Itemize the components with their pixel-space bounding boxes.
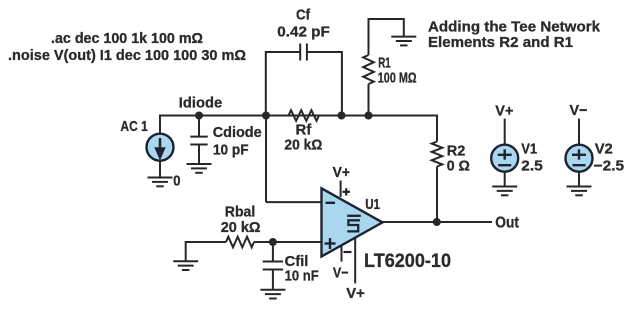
svg-text:.noise V(out) I1 dec 100 100 3: .noise V(out) I1 dec 100 100 30 mΩ [8, 47, 246, 64]
svg-text:Cdiode: Cdiode [213, 124, 262, 141]
svg-text:.ac dec 100 1k 100 mΩ: .ac dec 100 1k 100 mΩ [51, 30, 203, 47]
svg-text:U1: U1 [365, 196, 380, 213]
svg-text:10 pF: 10 pF [213, 142, 249, 159]
svg-text:AC 1: AC 1 [120, 118, 147, 135]
svg-text:0.42 pF: 0.42 pF [277, 23, 330, 40]
svg-text:V1: V1 [521, 140, 537, 157]
svg-text:Cf: Cf [296, 7, 311, 24]
svg-text:V+: V+ [333, 164, 351, 181]
svg-text:Idiode: Idiode [179, 95, 222, 112]
svg-text:10 nF: 10 nF [285, 268, 319, 285]
svg-text:V+: V+ [495, 102, 513, 119]
svg-text:20 kΩ: 20 kΩ [221, 219, 261, 236]
svg-text:V−: V− [333, 264, 349, 281]
svg-text:2.5: 2.5 [521, 158, 543, 175]
svg-text:0: 0 [173, 173, 180, 190]
svg-text:0 Ω: 0 Ω [447, 158, 470, 175]
svg-text:20 kΩ: 20 kΩ [284, 136, 322, 153]
svg-text:LT6200-10: LT6200-10 [364, 250, 451, 272]
svg-text:100 MΩ: 100 MΩ [378, 69, 417, 86]
svg-text:V−: V− [570, 102, 588, 119]
svg-text:−2.5: −2.5 [594, 158, 624, 175]
svg-text:V+: V+ [346, 285, 365, 302]
svg-text:Adding the Tee Network: Adding the Tee Network [428, 19, 601, 36]
svg-text:Out: Out [495, 215, 519, 232]
svg-text:V2: V2 [595, 140, 613, 157]
svg-text:Elements R2 and R1: Elements R2 and R1 [428, 34, 573, 51]
